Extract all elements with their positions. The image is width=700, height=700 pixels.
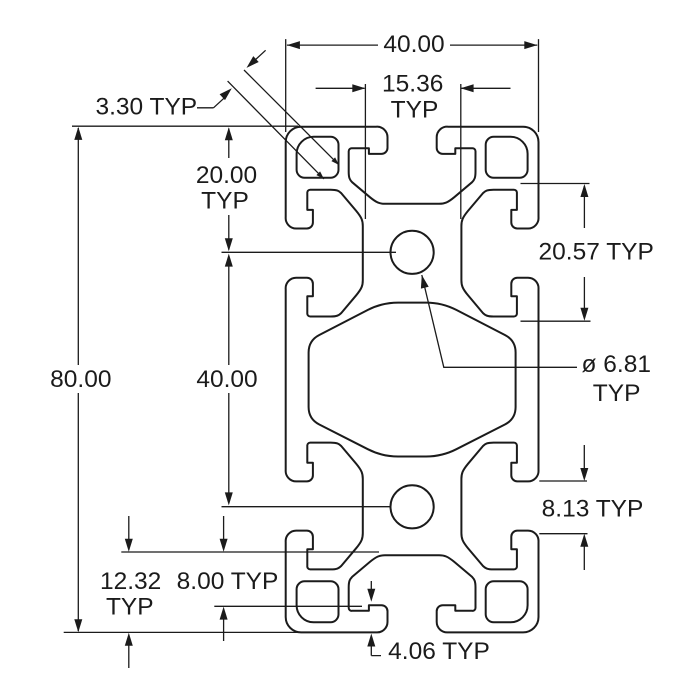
extension line B (lip top) [214, 605, 362, 607]
dim 20.57 arrow lines [583, 186, 585, 318]
dim 4.06 arrows lines [371, 581, 381, 656]
top face extension to left [72, 125, 298, 127]
svg-text:40.00: 40.00 [196, 366, 257, 393]
6.81 bore leader [422, 275, 577, 367]
corner channel bottom-left [297, 581, 339, 622]
dim 15.36 arrow lines [316, 87, 511, 89]
dim 20.57 extension lines [521, 184, 591, 322]
top hole center extension [222, 251, 397, 253]
dim 80.00 line [77, 128, 79, 631]
extrusion outer profile [286, 127, 539, 633]
svg-text:TYP: TYP [201, 188, 249, 215]
dim 8.13 arrow lines [583, 445, 585, 570]
dim 8.13 extension lines [539, 481, 587, 534]
arrowheads [287, 41, 300, 49]
dim 40.00 top dimension line [287, 44, 537, 46]
dim 12.32 arrows lines [128, 516, 130, 668]
corner channel top-right [486, 137, 528, 178]
bottom hole center extension [222, 506, 392, 508]
svg-text:20.00: 20.00 [196, 162, 257, 189]
dim 20.00 left vertical [228, 129, 230, 250]
extension line A (slot ceiling) [121, 551, 379, 553]
svg-text:TYP: TYP [391, 97, 439, 124]
svg-text:3.30 TYP: 3.30 TYP [95, 94, 197, 121]
corner channel top-left [297, 137, 339, 178]
central chamber [309, 303, 516, 457]
svg-text:40.00: 40.00 [383, 31, 444, 58]
bottom center bore circle [391, 485, 434, 528]
svg-text:8.13 TYP: 8.13 TYP [542, 495, 644, 522]
3.30 wall leader lines [228, 70, 339, 179]
dim 15.36 extension lines [365, 84, 460, 219]
svg-text:12.32: 12.32 [100, 568, 161, 595]
svg-text:4.06 TYP: 4.06 TYP [388, 638, 490, 665]
svg-text:ø 6.81: ø 6.81 [582, 351, 651, 378]
svg-text:15.36: 15.36 [382, 70, 443, 97]
top center bore circle [391, 231, 434, 274]
svg-text:80.00: 80.00 [50, 366, 111, 393]
dim 40.00 vertical line [228, 257, 230, 502]
dim 8.00 arrows lines [223, 516, 225, 641]
bottom face extension left [64, 631, 300, 633]
svg-text:TYP: TYP [106, 594, 154, 621]
svg-text:8.00 TYP: 8.00 TYP [177, 568, 279, 595]
corner channel bottom-right [486, 581, 528, 622]
dim 40.00 top extension lines [286, 39, 539, 132]
svg-text:20.57 TYP: 20.57 TYP [539, 239, 654, 266]
svg-text:TYP: TYP [593, 380, 641, 407]
